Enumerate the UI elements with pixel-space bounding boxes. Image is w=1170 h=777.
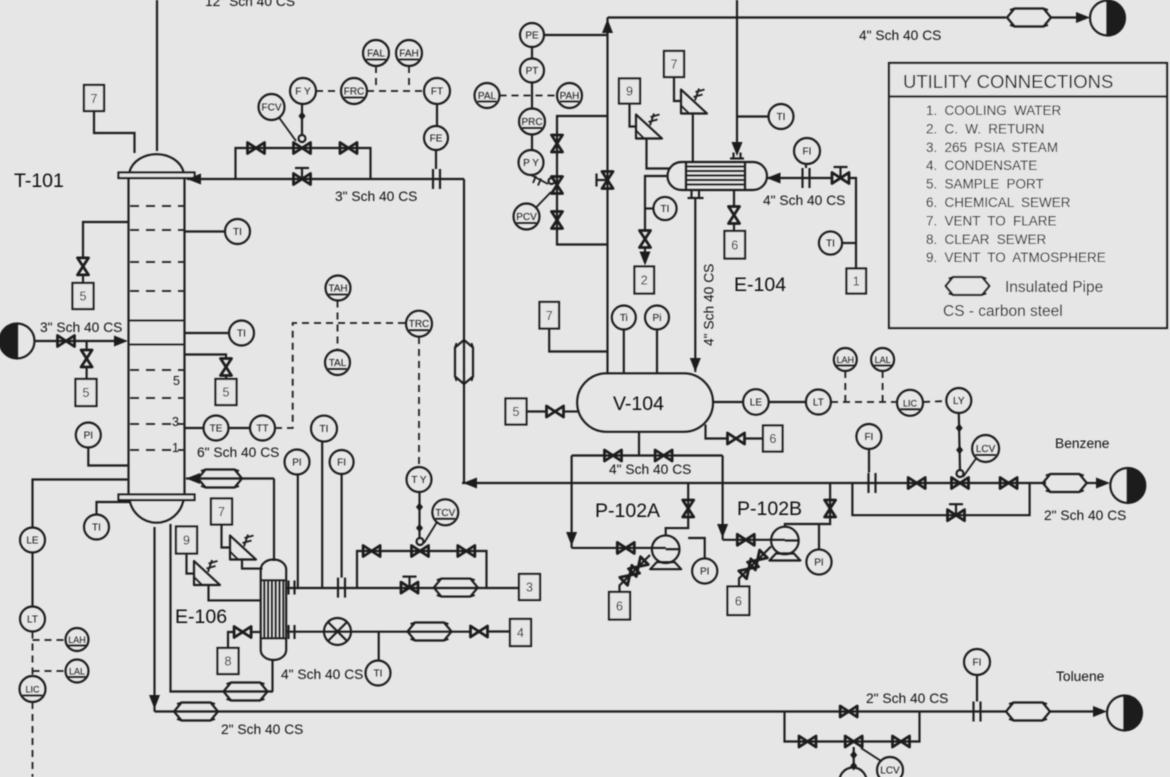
column T-101 shell — [129, 177, 185, 495]
header wire to product — [1051, 16, 1077, 18]
svg-text:7: 7 — [218, 505, 225, 519]
legend insulated pipe symbol — [946, 277, 990, 295]
arrow into riser junction — [463, 478, 477, 489]
upper sample wire from column — [83, 222, 129, 258]
instrument LIC bottom — [20, 676, 46, 702]
svg-text:4. CONDENSATE: 4. CONDENSATE — [926, 158, 1037, 173]
svg-text:LIC: LIC — [903, 398, 918, 408]
E-104 outlet to CW return — [645, 176, 667, 231]
svg-text:T Y: T Y — [411, 475, 427, 486]
P-102A suction drop — [571, 456, 573, 548]
gate valve V-104 sample — [547, 406, 564, 417]
svg-text:6: 6 — [616, 600, 623, 614]
svg-text:4" Sch 40 CS: 4" Sch 40 CS — [763, 193, 845, 208]
feed sample branch wire — [86, 341, 88, 350]
gate valve reflux bypass right — [340, 143, 357, 154]
gate valve manifold right — [655, 450, 672, 461]
wire to box 4 — [488, 630, 511, 632]
PSV9 outlet to E-104 — [647, 139, 671, 169]
level tap line from column — [33, 480, 129, 528]
svg-text:5: 5 — [173, 374, 180, 388]
wire to box 6 — [733, 224, 735, 232]
svg-text:3: 3 — [172, 415, 179, 429]
toluene product symbol — [1107, 696, 1142, 731]
wire to box 6 — [745, 437, 764, 439]
right sample wire from column — [185, 355, 227, 360]
E-106 riser to column — [273, 479, 275, 562]
globe valve reflux main — [294, 168, 311, 185]
steam box 3 — [519, 574, 540, 600]
signal FRC-FT — [367, 90, 423, 92]
svg-text:12" Sch 40 CS: 12" Sch 40 CS — [205, 0, 295, 9]
wire box5 to valve — [527, 410, 547, 412]
instrument LAL bottom — [66, 660, 89, 683]
svg-text:LY: LY — [953, 396, 965, 407]
gate valve manifold left — [605, 450, 622, 461]
legend box — [889, 63, 1167, 328]
svg-text:LT: LT — [813, 398, 824, 409]
PSV7 outlet to E-104 — [692, 114, 694, 163]
wire from box 7 to column top — [94, 111, 135, 153]
clear sewer box 8 — [218, 648, 239, 674]
instrument PE — [520, 23, 608, 47]
vent box 7 top-left — [84, 85, 104, 111]
reflux riser from pumps — [463, 179, 465, 483]
svg-text:2: 2 — [641, 274, 648, 288]
instrument FI cw — [794, 138, 820, 168]
instrument FCV — [259, 94, 297, 141]
signal LAH drop — [844, 371, 846, 402]
signal TT to TRC — [275, 323, 406, 428]
wire box9 to PSV — [630, 104, 637, 127]
reflux bypass left riser — [236, 148, 371, 179]
relief valve PSV to 7 — [230, 535, 256, 560]
wire box7 to PSV — [674, 77, 681, 101]
svg-text:PT: PT — [526, 66, 539, 77]
svg-text:TE: TE — [210, 424, 223, 435]
wire to sample box — [86, 367, 88, 379]
svg-text:4" Sch 40 CS: 4" Sch 40 CS — [281, 667, 363, 682]
svg-text:8: 8 — [225, 655, 232, 669]
instrument Pi V-104 — [645, 306, 669, 375]
instrument PAL — [475, 83, 500, 108]
pump B drain wire — [739, 547, 771, 587]
svg-text:2" Sch 40 CS: 2" Sch 40 CS — [866, 691, 948, 706]
svg-text:1: 1 — [172, 441, 179, 455]
reflux line arrow into column — [187, 174, 201, 185]
wire box 8 to E-106 — [228, 632, 234, 648]
svg-text:P-102B: P-102B — [737, 498, 802, 520]
P-102B suction drop — [722, 456, 724, 540]
insulated pipe on 2" line — [174, 703, 218, 721]
svg-text:FE: FE — [430, 134, 443, 145]
control valve LCV toluene — [840, 736, 867, 777]
svg-text:9: 9 — [626, 85, 633, 99]
insulated pipe on riser — [455, 340, 473, 384]
E-104 tubes — [686, 167, 745, 185]
relief valve PSV to 7 E-104 — [681, 89, 707, 114]
svg-text:TI: TI — [661, 204, 670, 215]
svg-text:7: 7 — [91, 92, 98, 106]
svg-text:PI: PI — [84, 431, 93, 442]
wire to toluene product — [1050, 710, 1093, 712]
instrument FAL — [363, 40, 389, 66]
instrument TI column mid — [185, 321, 255, 346]
gate valve toluene bypass right — [893, 736, 910, 747]
column T-101 top head — [130, 154, 184, 172]
V-104 bottom manifold — [572, 454, 723, 456]
signal FY-FRC — [316, 90, 341, 92]
svg-text:9: 9 — [183, 534, 190, 548]
instrument TE — [185, 416, 229, 441]
svg-text:TI: TI — [777, 112, 786, 123]
svg-text:E-106: E-106 — [175, 606, 227, 628]
sewer box 6 pump A — [609, 592, 630, 620]
gate valve drain E-106 — [234, 627, 251, 638]
cw supply arrow into E-104 — [767, 173, 781, 184]
instrument TY — [407, 467, 432, 492]
gate valve suction A — [617, 542, 634, 553]
svg-text:V-104: V-104 — [613, 393, 664, 415]
condensate box 4 — [510, 619, 531, 646]
E-104 shell drain stub — [733, 190, 735, 207]
signal LIC-LY — [923, 401, 946, 402]
instrument Ti V-104 — [612, 306, 636, 375]
arrow down suction A — [566, 532, 577, 546]
svg-text:PAL: PAL — [478, 91, 497, 102]
svg-text:7: 7 — [671, 58, 678, 72]
svg-text:Pi: Pi — [653, 313, 662, 324]
wire box 7 to PCV riser — [549, 329, 607, 352]
legend items — [926, 103, 1106, 265]
instrument TI steam — [311, 416, 337, 588]
PSV9 outlet wire — [209, 586, 261, 601]
signal FAH drop — [408, 66, 410, 90]
svg-text:5: 5 — [513, 405, 520, 419]
wire to right sample box — [225, 376, 227, 380]
svg-text:FT: FT — [431, 87, 443, 98]
relief valve PSV to 9 E-104 — [636, 114, 662, 139]
svg-text:TAL: TAL — [329, 358, 347, 369]
insulated pipe condensate — [408, 623, 452, 641]
svg-text:LAH: LAH — [837, 355, 855, 365]
vent box 7 at V-104 — [540, 302, 560, 329]
P-102B suction line — [723, 539, 785, 541]
gate valve feed sample — [81, 350, 92, 367]
svg-text:6: 6 — [731, 239, 738, 253]
bottoms product line down from column — [153, 527, 155, 712]
P-102A discharge — [666, 483, 689, 535]
insulated pipe benzene — [1043, 474, 1087, 492]
svg-text:7: 7 — [546, 309, 553, 323]
sample box 5 feed — [76, 379, 97, 406]
signal LAL drop — [882, 371, 884, 402]
wire PT to PRC — [531, 83, 533, 109]
gate valve benzene right — [1000, 478, 1017, 489]
signal LT to LIC — [32, 632, 34, 677]
instrument LCV benzene — [963, 435, 999, 477]
svg-text:3. 265 PSIA STEAM: 3. 265 PSIA STEAM — [926, 140, 1058, 155]
instrument TRC — [406, 311, 432, 337]
cw supply box 1 — [847, 269, 867, 294]
svg-text:PAH: PAH — [560, 91, 580, 102]
svg-text:LCV: LCV — [976, 444, 996, 455]
instrument PCV — [514, 192, 552, 230]
wire PY to PCV valve — [531, 175, 555, 186]
svg-text:TI: TI — [826, 239, 835, 250]
wire box 9 to PSV — [187, 554, 195, 574]
svg-text:LAL: LAL — [875, 355, 891, 365]
overhead line from offpage — [736, 0, 738, 143]
svg-text:PI: PI — [292, 458, 301, 469]
feed arrow into column — [114, 336, 128, 347]
gate valve drain B upper — [748, 550, 768, 570]
globe valve steam main — [401, 577, 418, 594]
instrument FI steam — [330, 450, 354, 578]
orifice benzene — [869, 473, 876, 493]
svg-text:Benzene: Benzene — [1055, 436, 1110, 451]
signal LT-LIC — [831, 401, 897, 403]
wire valve to E-106 — [251, 631, 261, 633]
pump P-102B — [769, 527, 800, 561]
svg-text:TT: TT — [256, 424, 268, 435]
svg-text:2. C. W. RETURN: 2. C. W. RETURN — [926, 121, 1045, 136]
wire PRC to PY — [531, 135, 533, 151]
svg-text:LE: LE — [750, 398, 763, 409]
svg-text:2" Sch 40 CS: 2" Sch 40 CS — [1044, 508, 1126, 523]
svg-text:4" Sch 40 CS: 4" Sch 40 CS — [702, 264, 717, 346]
gate valve suction B — [737, 534, 754, 545]
wire to box 2 — [644, 248, 646, 253]
gate valve discharge B — [825, 500, 836, 517]
wire to upper sample box — [82, 275, 84, 283]
signal PAL-PAH — [500, 95, 558, 97]
instrument FI benzene — [856, 424, 881, 473]
relief valve PSV to 9 — [194, 560, 220, 585]
wire valve to vessel — [564, 410, 580, 412]
bottoms 2" line to toluene — [155, 710, 785, 712]
sample box 5 right — [216, 379, 237, 405]
arrow to benzene product — [1096, 478, 1110, 489]
instrument LAH bottom — [66, 628, 89, 651]
svg-text:TAH: TAH — [328, 284, 347, 295]
column trays (dashed) — [130, 206, 184, 450]
E-104 tubesheets — [686, 162, 745, 190]
steam trap symbol — [324, 618, 351, 645]
gate valve right sample — [221, 359, 232, 376]
gate valve condensate — [471, 626, 488, 637]
sample box 5 upper — [73, 283, 94, 309]
svg-text:4" Sch 40 CS: 4" Sch 40 CS — [609, 462, 691, 477]
column T-101 bottom flange — [119, 495, 195, 501]
svg-text:PI: PI — [700, 567, 709, 578]
gate valve PCV lower — [552, 212, 563, 229]
svg-text:4: 4 — [517, 626, 524, 640]
svg-text:P Y: P Y — [523, 158, 539, 169]
instrument PI column bottom — [76, 423, 129, 466]
gate valve bypass left — [363, 546, 380, 557]
svg-text:5. SAMPLE PORT: 5. SAMPLE PORT — [926, 177, 1044, 192]
E-106 tube bundle — [261, 580, 287, 638]
instrument LAH V-104 — [834, 348, 857, 371]
orifice FE — [433, 169, 440, 189]
instrument TAL — [325, 350, 350, 375]
P-102B discharge — [785, 483, 830, 527]
feed stream symbol — [0, 324, 35, 359]
pump A drain wire — [620, 555, 651, 592]
instrument LE bottom — [20, 528, 45, 553]
signal TRC to TY — [418, 337, 420, 467]
cw supply line — [767, 177, 834, 179]
instrument TI bottom head — [84, 502, 130, 540]
signal FAL drop — [375, 66, 377, 90]
benzene product symbol — [1110, 468, 1145, 503]
globe valve PCV main — [597, 172, 614, 189]
svg-text:FI: FI — [803, 147, 812, 158]
svg-text:LCV: LCV — [880, 766, 900, 777]
svg-text:5: 5 — [83, 386, 90, 400]
signal TAH-TAL — [337, 301, 339, 351]
instrument PAH — [557, 83, 582, 108]
wire LE to LT — [31, 553, 33, 607]
instrument PT — [520, 47, 544, 83]
signal to LAH — [33, 639, 66, 641]
arrow down suction B — [717, 524, 728, 538]
PCV loop left branch — [557, 116, 608, 245]
column T-101 bottom head — [130, 500, 184, 523]
arrow to vent product — [1076, 12, 1090, 23]
instrument FAH — [396, 40, 422, 66]
V-104 bottom stub — [638, 432, 640, 456]
insulated pipe header — [1007, 9, 1051, 27]
column T-101 overhead vapor line 12" — [156, 0, 158, 151]
gate valve toluene bypass left — [799, 736, 816, 747]
control valve FCV — [294, 104, 311, 154]
gate valve drain B lower — [739, 559, 759, 579]
reboiler E-106 shell — [261, 560, 287, 661]
PSV7 outlet wire — [242, 560, 263, 569]
instrument LT V-104 — [769, 390, 831, 415]
gate valve cw return — [640, 231, 651, 248]
svg-text:LAL: LAL — [69, 667, 85, 677]
steam bypass loop — [357, 551, 487, 588]
svg-text:UTILITY CONNECTIONS: UTILITY CONNECTIONS — [903, 71, 1113, 92]
svg-text:TI: TI — [233, 227, 242, 238]
instrument FE — [424, 104, 448, 169]
gate valve feed — [58, 336, 75, 347]
svg-text:6" Sch 40 CS: 6" Sch 40 CS — [197, 445, 279, 460]
instrument LIC V-104 — [897, 390, 923, 416]
svg-text:PRC: PRC — [521, 117, 542, 128]
svg-text:3: 3 — [526, 581, 533, 595]
arrow into V-104 — [690, 358, 701, 372]
gate valve bypass right — [458, 546, 475, 557]
gate valve upper sample — [78, 258, 89, 275]
svg-text:PI: PI — [814, 558, 823, 569]
cw supply riser from box 1 — [848, 178, 856, 269]
vessel V-104 — [577, 373, 713, 432]
svg-text:TI: TI — [374, 669, 383, 680]
orifice FI cw — [803, 168, 810, 188]
svg-text:3" Sch 40 CS: 3" Sch 40 CS — [335, 189, 417, 204]
E-104 PSV box 9 — [619, 79, 640, 104]
gate valve toluene main — [840, 706, 857, 717]
E-104 bottom nozzle flange — [688, 191, 704, 199]
V-104 drain wire to box 6 — [706, 425, 728, 439]
svg-text:4" Sch 40 CS: 4" Sch 40 CS — [859, 28, 941, 43]
column trays (solid) — [129, 321, 184, 345]
svg-text:LE: LE — [26, 536, 39, 547]
feed line 3" — [35, 340, 122, 342]
gate valve drain A lower — [620, 565, 640, 585]
instrument LT bottom — [20, 607, 45, 632]
svg-text:LAH: LAH — [68, 635, 86, 645]
condensate line from E-106 — [286, 631, 470, 633]
svg-text:5: 5 — [80, 290, 87, 304]
sewer box 6 pump B — [728, 587, 750, 616]
pump P-102A — [650, 535, 681, 569]
wire box 7 to PSV — [222, 525, 231, 548]
instrument LAL V-104 — [871, 348, 894, 371]
svg-text:1. COOLING WATER: 1. COOLING WATER — [926, 103, 1062, 118]
cw return box 2 — [635, 267, 655, 294]
insulated pipe on vapor return — [198, 470, 242, 488]
instrument LE V-104 — [713, 389, 769, 415]
svg-text:LIC: LIC — [25, 685, 40, 695]
svg-text:TI: TI — [237, 329, 246, 340]
P-102A suction line — [572, 547, 666, 549]
wire to product — [1087, 482, 1096, 484]
arrow into box 2 — [640, 252, 651, 266]
benzene bypass loop — [852, 483, 1029, 515]
svg-text:FI: FI — [973, 658, 982, 669]
E-106 steam nozzle flanges — [289, 581, 295, 595]
instrument TCV — [424, 499, 458, 543]
vent header line — [608, 16, 1007, 18]
svg-text:TI: TI — [92, 523, 101, 534]
svg-text:Insulated Pipe: Insulated Pipe — [1005, 279, 1103, 296]
svg-text:FAH: FAH — [399, 49, 418, 60]
svg-text:9. VENT TO ATMOSPHERE: 9. VENT TO ATMOSPHERE — [926, 250, 1106, 265]
svg-text:TCV: TCV — [435, 508, 455, 519]
svg-text:5: 5 — [223, 386, 230, 400]
svg-text:PCV: PCV — [516, 212, 537, 223]
instrument TI condensate — [366, 632, 391, 686]
instrument TT — [229, 416, 276, 441]
svg-text:T-101: T-101 — [14, 170, 64, 192]
instrument TI column upper — [185, 219, 251, 244]
svg-text:6: 6 — [769, 432, 776, 446]
LY to LCV stem — [956, 413, 963, 470]
reflux/product header from pumps — [462, 482, 1046, 484]
signal LIC down (cut) — [32, 702, 34, 777]
globe valve benzene bypass — [948, 504, 965, 521]
instrument LY — [946, 388, 971, 413]
instrument PI steam — [285, 450, 310, 588]
gate valve benzene left — [908, 478, 925, 489]
instrument FI toluene — [964, 649, 990, 702]
insulated pipe steam — [434, 579, 478, 597]
svg-text:FRC: FRC — [344, 87, 365, 98]
instrument LCV toluene — [861, 748, 903, 777]
E-104 top nozzle flange — [730, 153, 744, 159]
orifice FI steam — [338, 578, 345, 598]
insulated pipe on reboiler feed — [224, 683, 268, 701]
arrow down on bottoms line — [149, 695, 160, 709]
svg-text:FI: FI — [337, 458, 346, 469]
instrument PI pump A — [688, 538, 717, 584]
reboiler vapor return line — [186, 477, 274, 479]
